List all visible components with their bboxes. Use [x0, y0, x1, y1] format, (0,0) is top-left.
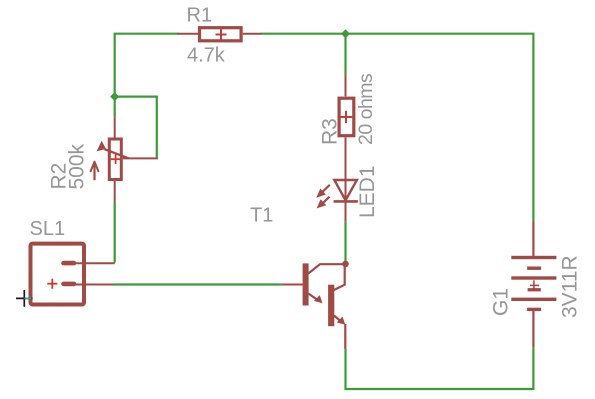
- svg-text:4.7k: 4.7k: [187, 45, 226, 67]
- svg-text:LED1: LED1: [356, 165, 379, 218]
- svg-text:R1: R1: [187, 5, 213, 27]
- svg-text:20 ohms: 20 ohms: [355, 73, 377, 145]
- svg-text:500k: 500k: [66, 143, 89, 189]
- svg-text:R3: R3: [319, 118, 342, 145]
- svg-text:3V11R: 3V11R: [559, 255, 582, 318]
- svg-text:SL1: SL1: [30, 218, 66, 240]
- svg-text:T1: T1: [250, 204, 273, 226]
- svg-text:G1: G1: [490, 288, 513, 316]
